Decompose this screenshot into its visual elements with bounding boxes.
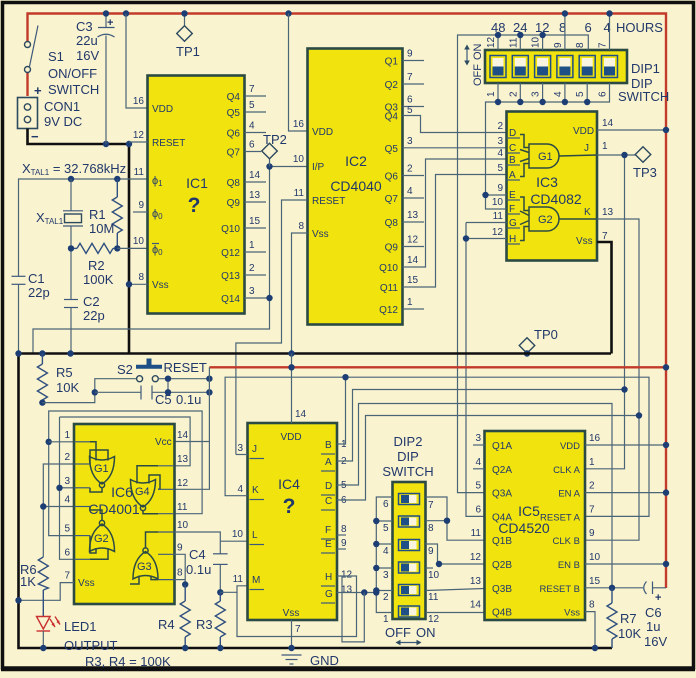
svg-text:1: 1 — [602, 141, 608, 152]
pin IC6-2 — [64, 452, 90, 464]
IC IC3 CD4082 — [507, 112, 598, 261]
pin IC4-1 B — [321, 439, 347, 454]
resistor R4 (100K) — [158, 585, 190, 649]
svg-text:RESET A: RESET A — [540, 512, 581, 523]
wire: S2 right contact to +9V branch — [158, 378, 209, 380]
svg-text:9: 9 — [341, 538, 347, 549]
svg-text:8: 8 — [428, 523, 434, 534]
wire: IC3 H input tied to G, riser to IC5 Q4A — [466, 223, 507, 517]
svg-text:K: K — [252, 485, 259, 496]
junction C on K net — [636, 412, 642, 418]
svg-text:2: 2 — [589, 481, 595, 492]
svg-text:7: 7 — [598, 42, 609, 48]
pin IC3-12 H — [492, 227, 520, 245]
pin IC2-16 VDD — [293, 119, 333, 138]
svg-text:7: 7 — [589, 504, 595, 515]
svg-text:B: B — [325, 440, 332, 451]
svg-text:?: ? — [188, 194, 201, 217]
wire: IC6 pin9 to R4 — [175, 554, 186, 584]
svg-text:R3, R4 = 100K: R3, R4 = 100K — [85, 654, 171, 669]
wire: DIP1 pin9 to +9V rail — [564, 14, 566, 51]
junction TP0 on ground rail — [524, 350, 530, 356]
pin IC1-14 Q8 — [227, 170, 266, 189]
junction LED1 ground — [40, 645, 46, 651]
svg-text:R3: R3 — [196, 617, 213, 632]
svg-text:7: 7 — [407, 72, 413, 83]
svg-text:14: 14 — [177, 430, 189, 441]
svg-text:A: A — [325, 457, 332, 468]
pin IC1-6 Q7 — [227, 140, 261, 159]
svg-text:9: 9 — [177, 542, 183, 553]
resistor R1 10M — [89, 179, 122, 248]
svg-text:16: 16 — [293, 119, 305, 130]
svg-text:DIP1: DIP1 — [631, 61, 660, 76]
wire: +9V branch rail to reset circuit (red) — [209, 366, 666, 368]
svg-text:F: F — [325, 525, 331, 536]
pin DIP2-1 — [383, 614, 389, 625]
svg-text:11: 11 — [428, 592, 439, 603]
svg-text:3: 3 — [249, 286, 255, 297]
wire: DIP1 bottom stubs — [498, 83, 587, 102]
svg-text:13: 13 — [470, 576, 482, 587]
svg-text:2: 2 — [407, 164, 413, 175]
svg-text:S2: S2 — [117, 362, 133, 377]
pin DIP2-2 — [383, 592, 389, 603]
junction IC1 Vss on black — [126, 281, 132, 287]
pin IC5-10 EN B — [558, 552, 601, 571]
svg-text:3: 3 — [475, 433, 481, 444]
svg-text:10: 10 — [589, 552, 601, 563]
svg-text:IC3: IC3 — [536, 174, 558, 190]
svg-text:C4: C4 — [189, 547, 206, 562]
svg-text:4: 4 — [475, 457, 481, 468]
svg-text:10: 10 — [531, 36, 542, 48]
pin IC2-5 Q4 — [385, 105, 413, 123]
svg-text:C: C — [325, 496, 332, 507]
pin IC3-2 D — [497, 121, 520, 139]
svg-text:Q1B: Q1B — [492, 536, 512, 547]
pin IC2-13 Q8 — [385, 210, 424, 229]
svg-text:10: 10 — [133, 236, 145, 247]
resistor R5 10K — [37, 354, 79, 403]
junction IC5 Vss ground — [592, 645, 598, 651]
pin IC2-1 Q12 — [379, 297, 424, 316]
svg-text:5: 5 — [249, 100, 255, 111]
junction IC3 VDD on red rail — [663, 127, 669, 133]
junction IC2 Vss ground — [288, 350, 294, 356]
junction G/H tie — [463, 235, 469, 241]
svg-text:9: 9 — [138, 200, 144, 211]
IC IC4 — [248, 423, 338, 620]
resistor R7 10K — [607, 588, 641, 648]
wire: DIP2 pin12 to IC5 Q4B — [426, 612, 485, 614]
wire: IC2 I/P net down to ground-side return — [33, 298, 270, 354]
junction IC4 VDD on red branch — [288, 364, 294, 370]
svg-text:VDD: VDD — [573, 126, 594, 137]
pin IC1-2 Q13 — [221, 263, 266, 282]
test point TP1 — [176, 14, 200, 60]
wire: IC6 pin8 tie to pin9/R4 — [175, 579, 186, 581]
svg-text:11: 11 — [177, 502, 188, 513]
pin IC2-7 Q2 — [385, 72, 424, 91]
svg-text:SWITCH: SWITCH — [618, 89, 669, 104]
pin IC2-2 Q6 — [385, 164, 424, 183]
svg-text:15: 15 — [407, 275, 419, 286]
gate G1 (IC6 NOR) — [90, 442, 115, 492]
resistor R2 100K — [71, 243, 117, 287]
pin IC3-9 E — [497, 183, 520, 201]
pin IC6-3 — [64, 476, 90, 488]
svg-text:Q2A: Q2A — [492, 465, 512, 476]
wire: G1 output (pin3) to G2 input (pin6) and G4 input (pin13) — [60, 417, 191, 559]
wire: IC2 RESET to J net riser — [236, 200, 308, 455]
wire: IC6 pin13 riser — [174, 442, 190, 466]
junction C5 left tap — [92, 389, 98, 395]
pin IC3-7 Vss — [576, 231, 608, 247]
svg-text:5: 5 — [64, 524, 70, 535]
svg-text:CLK A: CLK A — [553, 465, 581, 476]
svg-text:R7: R7 — [620, 611, 637, 626]
wire: G2 output (pin4) to G1 input (pin2) and R6 — [43, 464, 74, 557]
junction R5 top ground — [39, 350, 45, 356]
IC IC5 CD4520 — [485, 431, 586, 620]
svg-text:TP1: TP1 — [176, 44, 200, 59]
svg-text:B: B — [509, 155, 516, 166]
junction IC2 VDD riser on red rail — [285, 10, 291, 16]
svg-text:H: H — [325, 572, 332, 583]
svg-text:11: 11 — [471, 528, 482, 539]
wire: DIP1 bottom common bus to IC3 E/F — [486, 83, 610, 195]
svg-text:6: 6 — [407, 95, 413, 106]
svg-text:7: 7 — [64, 571, 70, 582]
pin IC4-12 H — [321, 570, 353, 587]
svg-text:16: 16 — [133, 96, 145, 107]
svg-text:Q10: Q10 — [379, 263, 398, 274]
svg-text:VDD: VDD — [312, 127, 333, 138]
pin IC6-11 — [158, 502, 188, 514]
junction EN B on red rail — [663, 561, 669, 567]
pin IC3-11 G — [493, 211, 520, 229]
pin IC1-7 Q4 — [227, 84, 266, 103]
pin DIP2-3 — [383, 570, 389, 581]
svg-text:1K: 1K — [20, 574, 36, 589]
svg-text:2: 2 — [497, 121, 503, 132]
wire: DIP2 left common bus — [376, 497, 392, 613]
svg-text:+: + — [107, 17, 113, 29]
svg-text:5: 5 — [475, 481, 481, 492]
svg-text:6: 6 — [475, 504, 481, 515]
wire: IC5 EN A to red rail — [585, 492, 666, 494]
svg-text:14: 14 — [249, 170, 261, 181]
svg-text:C6: C6 — [645, 605, 662, 620]
gate G3 (IC6 NOR) — [130, 532, 158, 584]
svg-text:22p: 22p — [83, 308, 105, 323]
svg-text:Q12: Q12 — [379, 305, 398, 316]
svg-text:G2: G2 — [94, 533, 109, 545]
svg-text:S1: S1 — [48, 49, 64, 64]
IC IC2 CD4040 — [308, 49, 403, 325]
pin IC1-1 Q12 — [221, 240, 266, 259]
pin IC4-6 C — [321, 495, 347, 510]
pin IC5-13 Q3B — [470, 576, 512, 595]
wire: IC3 G input from riser — [466, 222, 507, 224]
svg-text:−: − — [31, 129, 39, 144]
svg-text:10: 10 — [492, 197, 504, 208]
pin IC1-3 Q14 — [221, 286, 269, 305]
wire: +9V top red rail — [28, 14, 667, 589]
pin IC1-10 phi0bar — [133, 236, 163, 257]
pin IC4-3 J — [236, 443, 264, 459]
pin IC4-14 VDD — [280, 409, 306, 443]
capacitor C2 22p — [64, 294, 105, 354]
svg-text:Q4B: Q4B — [492, 608, 512, 619]
svg-text:Q4: Q4 — [385, 112, 399, 123]
junction C5 right on riser — [206, 389, 212, 395]
svg-text:CD4082: CD4082 — [530, 191, 582, 207]
svg-text:22u: 22u — [76, 33, 98, 48]
capacitor C4 0.1u — [186, 547, 228, 592]
pin DIP2-12 — [428, 614, 440, 625]
svg-text:14: 14 — [470, 600, 482, 611]
svg-text:7: 7 — [428, 500, 434, 511]
svg-text:D: D — [509, 128, 516, 139]
svg-text:HOURS: HOURS — [616, 20, 663, 35]
svg-text:8: 8 — [575, 42, 586, 48]
svg-text:11: 11 — [294, 188, 305, 199]
wire: IC1 pin10 to R1 bottom — [117, 247, 147, 249]
wire: DIP1 pin7 to +9V rail — [609, 14, 611, 51]
wire: IC4 K to IC5 RESET A bus — [225, 377, 649, 516]
junction IC6 Vss ground — [15, 597, 21, 603]
wire: G3 output (pin10) to C4 / IC4 L — [175, 532, 248, 554]
svg-text:10K: 10K — [618, 626, 641, 641]
svg-text:EN B: EN B — [558, 560, 580, 571]
svg-text:12: 12 — [470, 552, 482, 563]
svg-text:IC1: IC1 — [186, 175, 208, 191]
svg-text:2: 2 — [249, 263, 255, 274]
svg-text:J: J — [584, 143, 589, 154]
svg-text:?: ? — [283, 495, 296, 518]
junction B on bus — [342, 374, 348, 380]
svg-text:M: M — [252, 575, 260, 586]
svg-text:14: 14 — [407, 255, 419, 266]
junction DIP1 pin7 on red rail — [606, 10, 612, 16]
junction DIP2 pin3 — [373, 565, 379, 571]
pin IC2-3 Q5 — [385, 136, 413, 155]
svg-text:CON1: CON1 — [44, 99, 80, 114]
svg-text:K: K — [584, 207, 591, 218]
gate G4 (IC6 NOR) — [131, 466, 161, 514]
svg-text:Q6: Q6 — [385, 172, 399, 183]
svg-text:OUTPUT: OUTPUT — [64, 638, 118, 653]
svg-text:GND: GND — [310, 653, 339, 668]
svg-text:IC4: IC4 — [278, 476, 300, 492]
svg-text:7: 7 — [295, 624, 301, 635]
svg-text:G1: G1 — [538, 151, 553, 163]
svg-text:Vss: Vss — [576, 236, 593, 247]
svg-text:3: 3 — [64, 476, 70, 487]
svg-text:CLK B: CLK B — [553, 536, 580, 547]
wire: IC4 C to K net — [337, 416, 639, 501]
junction Q14 riser bottom — [266, 295, 272, 301]
test point TP0 — [519, 327, 558, 354]
junction R4 top — [182, 581, 188, 587]
svg-text:10: 10 — [293, 154, 305, 165]
junction DIP1 pin10 — [539, 32, 545, 38]
svg-text:9: 9 — [407, 49, 413, 60]
svg-text:14: 14 — [602, 118, 614, 129]
wire: IC4 VDD riser from red branch — [291, 354, 293, 424]
svg-text:L: L — [252, 530, 258, 541]
svg-text:Vss: Vss — [564, 608, 580, 619]
wire: IC4 H to M node — [237, 576, 357, 637]
svg-text:4: 4 — [383, 546, 389, 557]
node HOURS selection labels — [491, 20, 663, 35]
junction C1 ground — [15, 350, 21, 356]
svg-text:C2: C2 — [83, 294, 100, 309]
svg-text:2: 2 — [508, 91, 519, 97]
svg-text:Q1: Q1 — [385, 57, 399, 68]
pin IC4-4 K — [237, 484, 264, 500]
svg-text:13: 13 — [249, 190, 261, 201]
svg-text:3: 3 — [497, 136, 503, 147]
pin IC1-12 RESET — [129, 130, 185, 149]
pin IC1-4 Q6 — [227, 121, 266, 140]
junction DIP2 pin2 — [373, 587, 379, 593]
pin IC3-13 K output — [584, 207, 614, 218]
pin IC4-2 A — [321, 456, 347, 471]
svg-text:Q4: Q4 — [227, 92, 241, 103]
pin IC2-15 Q11 — [380, 275, 419, 294]
junction R1 top — [114, 176, 120, 182]
pin DIP2-11 — [428, 592, 439, 603]
junction G branch — [361, 589, 367, 595]
pin IC3-14 VDD — [573, 118, 614, 137]
svg-text:15: 15 — [249, 216, 261, 227]
svg-text:5: 5 — [497, 163, 503, 174]
svg-text:7: 7 — [249, 84, 255, 95]
pin IC6-8 — [158, 568, 183, 580]
pin IC5-2 EN A — [558, 481, 595, 500]
gate G2 (IC6 NOR) — [90, 507, 115, 560]
pin IC6-4 — [64, 495, 90, 507]
svg-text:Q3A: Q3A — [492, 489, 512, 500]
wire: S2/C5 tie riser — [167, 379, 169, 393]
capacitor C6 1u 16V — [644, 582, 668, 650]
pin IC6-9 — [158, 542, 183, 554]
svg-text:RESET: RESET — [152, 138, 185, 149]
svg-text:3: 3 — [383, 570, 389, 581]
pin IC5-11 Q1B — [471, 528, 513, 547]
svg-text:ON/OFF: ON/OFF — [48, 66, 97, 81]
svg-text:VDD: VDD — [280, 432, 301, 443]
svg-text:Q2: Q2 — [385, 80, 399, 91]
junction DIP2 pin4 — [373, 541, 379, 547]
svg-text:2: 2 — [64, 452, 70, 463]
wire: IC4 B to RESET A bus — [337, 377, 346, 444]
wire: IC5 EN B to red rail — [585, 563, 666, 565]
junction DIP1 pin12 — [495, 32, 501, 38]
svg-text:R5: R5 — [56, 365, 73, 380]
svg-text:F: F — [509, 204, 515, 215]
pin IC1-11 phi1 — [134, 167, 164, 188]
svg-text:9: 9 — [428, 546, 434, 557]
pin IC6-13 — [158, 454, 189, 466]
test point TP2 — [262, 132, 287, 167]
junction crystal top — [68, 176, 74, 182]
wire: DIP1 pin12 stub — [497, 35, 499, 50]
wire: IC5 Vss to ground rail — [585, 612, 595, 648]
junction DIP2 common / G wire — [373, 589, 379, 595]
pin IC1-5 Q5 — [227, 100, 266, 119]
svg-text:22p: 22p — [28, 285, 50, 300]
svg-text:ON: ON — [416, 625, 436, 640]
svg-text:4: 4 — [553, 91, 564, 97]
svg-text:13: 13 — [177, 454, 189, 465]
pin IC5-14 Q4B — [470, 600, 512, 619]
svg-text:R2: R2 — [88, 258, 105, 273]
svg-text:SWITCH: SWITCH — [382, 464, 433, 479]
svg-text:1: 1 — [407, 297, 413, 308]
wire: IC3 Vss to ground rail (black) — [597, 242, 612, 354]
wire: red rail to IC2 VDD pin16 — [289, 14, 308, 132]
svg-text:9: 9 — [553, 42, 564, 48]
svg-text:3: 3 — [531, 91, 542, 97]
wire: IC6 pin1 stub — [49, 441, 74, 443]
pin IC2-6 Q3 — [385, 95, 424, 114]
LED LED1 output indicator — [37, 617, 118, 654]
junction DIP1 pin1 — [495, 99, 501, 105]
svg-text:11: 11 — [493, 211, 504, 222]
wire: IC4 D to IC5 RESET B node — [337, 404, 612, 588]
svg-text:RESET: RESET — [312, 196, 345, 207]
pin DIP2-7 — [428, 500, 434, 511]
pin IC5-7 RESET A — [540, 504, 595, 523]
DIP switch DIP1 — [464, 36, 669, 104]
svg-text:4: 4 — [497, 148, 503, 159]
wire: Q14 to IC2 I/P riser — [270, 167, 308, 299]
svg-text:Q5: Q5 — [385, 144, 399, 155]
wire: red rail to IC1 VDD pin16 — [126, 14, 148, 109]
pin DIP2-6 — [383, 499, 389, 510]
wire: IC5 VDD to red rail — [585, 444, 666, 446]
svg-text:4: 4 — [249, 121, 255, 132]
svg-text:DIP: DIP — [397, 449, 419, 464]
junction DIP2 pin5 — [373, 518, 379, 524]
svg-text:13: 13 — [602, 207, 614, 218]
svg-text:E: E — [325, 539, 332, 550]
svg-text:IC6: IC6 — [111, 484, 133, 500]
svg-text:9: 9 — [589, 528, 595, 539]
pin IC2-10 I/P — [293, 154, 325, 173]
svg-text:Vcc: Vcc — [155, 437, 172, 448]
svg-text:16V: 16V — [76, 48, 99, 63]
switch S2 RESET — [117, 359, 207, 382]
gate G2 (IC3 4-input AND) — [520, 197, 597, 241]
svg-text:6: 6 — [598, 91, 609, 97]
svg-text:6: 6 — [383, 499, 389, 510]
svg-text:ON: ON — [472, 43, 484, 60]
svg-text:G2: G2 — [538, 214, 553, 226]
pin IC6-10 — [158, 520, 189, 532]
wire: R5 bottom to S2 left contact — [42, 379, 136, 403]
junction tie bottom — [165, 389, 171, 395]
pin IC4-11 M — [233, 574, 264, 590]
svg-text:14: 14 — [295, 409, 307, 420]
junction crystal/R2/C2 — [68, 245, 74, 251]
svg-text:6: 6 — [585, 20, 592, 35]
pin IC1-8 Vss — [129, 272, 169, 291]
